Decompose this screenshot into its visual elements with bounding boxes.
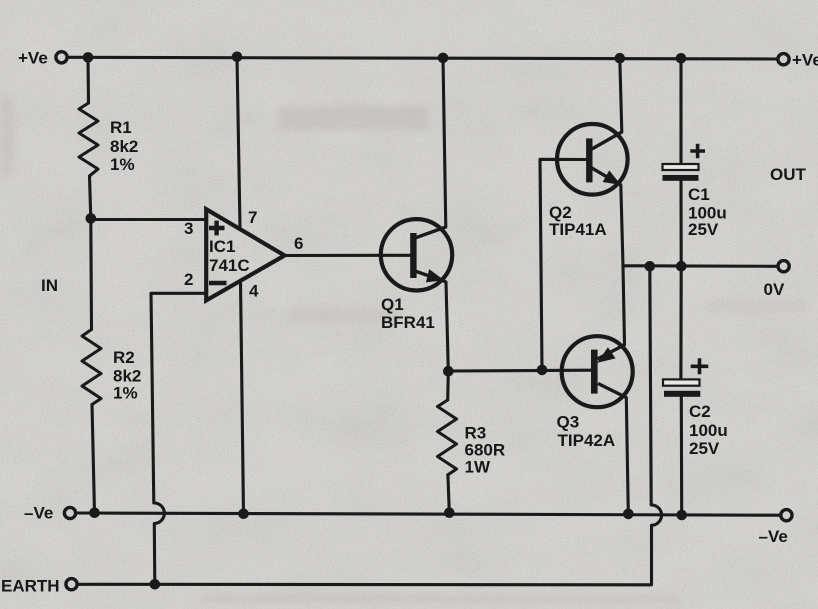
svg-text:Q1: Q1: [381, 295, 404, 314]
junction dot R3 at -Ve: [444, 507, 455, 518]
op-amp U1 IC1 741C triangle: [206, 209, 284, 300]
svg-text:3: 3: [184, 219, 193, 238]
transistor Q1 circle: [381, 219, 452, 290]
capacitor C1 bottom plate (solid): [663, 175, 699, 181]
junction dot Q3 collector at -Ve: [623, 509, 634, 520]
wire op-amp pin2 feedback with hop over -Ve: [151, 293, 206, 584]
svg-text:6: 6: [294, 234, 303, 253]
wire R3 top lead: [446, 371, 450, 400]
junction dot feedback at EARTH: [150, 579, 161, 590]
svg-text:TIP42A: TIP42A: [558, 431, 616, 450]
transistor Q1 emitter arrow: [427, 271, 441, 281]
wire Q2 collector riser: [620, 58, 622, 132]
wire C1 top lead: [679, 59, 682, 164]
svg-text:1W: 1W: [465, 458, 491, 477]
wire R3 bottom lead: [448, 475, 449, 513]
svg-text:4: 4: [249, 282, 259, 301]
transistor Q2 base bar: [586, 138, 592, 182]
svg-text:TIP41A: TIP41A: [549, 220, 607, 239]
junction dot pin4 at -Ve: [238, 509, 249, 520]
junction dot Q2 base tap: [537, 365, 548, 376]
svg-text:+Ve: +Ve: [792, 51, 818, 70]
svg-text:IN: IN: [41, 276, 58, 295]
wire R1 top lead: [86, 57, 90, 103]
junction dot R1-R2 input node: [86, 213, 97, 224]
svg-text:R1: R1: [110, 118, 132, 137]
wire Q2 base L-wire: [540, 159, 587, 370]
wire R2 bottom lead: [92, 405, 95, 514]
junction dot Q2 collector rail: [615, 53, 626, 64]
svg-text:25V: 25V: [688, 220, 719, 239]
junction dot pin7 rail: [232, 52, 243, 63]
junction dot 0V riser: [645, 261, 656, 272]
op-amp minus input symbol: [209, 281, 227, 286]
svg-text:2: 2: [184, 270, 193, 289]
wire op-amp pin3 input: [91, 218, 206, 221]
junction dot Q1 collector rail: [438, 53, 449, 64]
wire op-amp pin7 supply: [237, 57, 240, 227]
wire op-amp pin4 supply: [241, 282, 244, 514]
capacitor C2 bottom plate (solid): [664, 391, 700, 397]
svg-text:C2: C2: [689, 402, 711, 421]
svg-text:741C: 741C: [209, 256, 250, 275]
wire C2 bottom lead: [680, 397, 684, 515]
terminal 0V right: [778, 261, 789, 272]
svg-text:7: 7: [248, 208, 257, 227]
svg-text:8k2: 8k2: [110, 137, 138, 156]
svg-text:OUT: OUT: [770, 165, 807, 184]
svg-text:–Ve: –Ve: [24, 504, 53, 523]
wire op-amp output pin6 to Q1 base: [285, 254, 411, 257]
terminal -Ve left: [64, 507, 75, 518]
wire 0V output line: [623, 264, 777, 268]
capacitor C2 top plate (positive, hollow): [663, 379, 700, 385]
svg-text:BFR41: BFR41: [381, 313, 435, 332]
svg-text:25V: 25V: [689, 439, 720, 458]
wire Q1 emitter to Q3 base: [448, 369, 591, 373]
svg-text:Q3: Q3: [557, 413, 580, 432]
svg-text:0V: 0V: [764, 280, 785, 299]
wire C2 top lead: [679, 266, 682, 379]
resistor R2: [82, 330, 101, 405]
transistor Q2 emitter arrow: [604, 172, 618, 183]
wire Q1 collector riser: [443, 58, 446, 227]
transistor Q2 collector diagonal: [591, 132, 622, 150]
capacitor C2 plus sign: [691, 358, 709, 374]
transistor Q3 collector diagonal: [598, 384, 626, 398]
svg-text:–Ve: –Ve: [759, 527, 788, 546]
terminal -Ve right: [781, 510, 792, 521]
resistor R3: [438, 400, 457, 475]
wire Q1 emitter drop: [446, 282, 448, 371]
transistor Q2 circle: [557, 124, 628, 195]
transistor Q2 emitter diagonal: [592, 168, 621, 185]
transistor Q3 circle: [562, 336, 633, 407]
transistor Q1 collector diagonal: [415, 227, 446, 238]
svg-text:IC1: IC1: [209, 237, 235, 256]
svg-text:EARTH: EARTH: [1, 577, 60, 596]
wire -Ve rail: [77, 513, 780, 515]
svg-text:100u: 100u: [689, 421, 728, 440]
capacitor C1 plus sign: [690, 144, 705, 158]
svg-text:1%: 1%: [113, 384, 138, 403]
transistor Q3 emitter arrow (PNP into base): [599, 349, 614, 361]
wire top +Ve rail: [69, 57, 776, 59]
op-amp plus input symbol: [209, 221, 225, 236]
junction dot C2 at -Ve: [676, 510, 687, 521]
svg-text:1%: 1%: [110, 155, 135, 174]
terminal EARTH: [66, 579, 77, 590]
junction dot Q1 emitter node: [443, 366, 454, 377]
transistor Q1 base bar: [410, 233, 416, 278]
wire Q3 collector drop: [626, 398, 628, 514]
junction dot R2 at -Ve: [89, 508, 100, 519]
wire R2 top lead: [89, 219, 93, 330]
wire R1 bottom lead: [90, 176, 91, 219]
junction dot C1 rail: [676, 53, 687, 64]
wire 0V to Q3 emitter: [623, 266, 625, 345]
transistor Q3 base bar: [591, 350, 598, 394]
transistor Q3 emitter diagonal: [598, 345, 625, 359]
transistor Q1 emitter diagonal: [415, 271, 446, 282]
wire C1 bottom lead: [679, 181, 682, 266]
junction dot C1-C2 0V: [676, 261, 687, 272]
junction dot R1 top: [83, 52, 94, 63]
wire EARTH line and riser to 0V with hop over -Ve: [79, 266, 662, 585]
terminal +Ve left: [56, 52, 67, 63]
svg-text:C1: C1: [688, 185, 710, 204]
terminal +Ve right: [778, 54, 789, 65]
capacitor C1 top plate (positive, hollow): [663, 164, 699, 170]
svg-text:+Ve: +Ve: [18, 49, 48, 68]
svg-text:R2: R2: [113, 348, 135, 367]
wire Q2 emitter to 0V: [621, 185, 623, 266]
resistor R1: [79, 103, 98, 176]
